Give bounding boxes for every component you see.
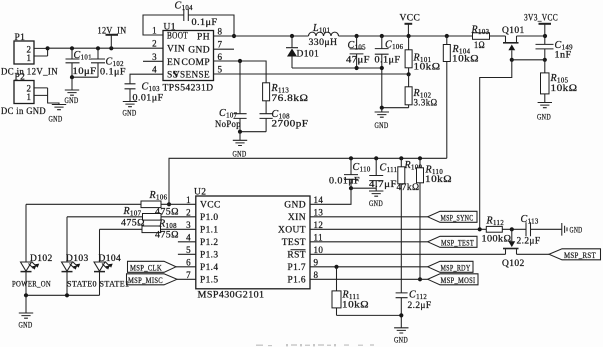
svg-text:10μF: 10μF <box>73 67 97 77</box>
svg-text:D102: D102 <box>30 254 53 264</box>
wire U1 pin3 EN stub <box>143 60 163 62</box>
svg-text:MSP_SYNC: MSP_SYNC <box>441 213 474 223</box>
LED D103 <box>62 217 98 295</box>
svg-text:Q102: Q102 <box>502 259 525 269</box>
svg-text:10kΩ: 10kΩ <box>425 175 452 185</box>
resistor R103 <box>471 25 506 52</box>
svg-text:P1.5: P1.5 <box>200 276 219 286</box>
wire U2 pin12 XOUT to R112 <box>310 228 486 230</box>
wire LED cathode bus <box>26 294 100 296</box>
wire Q102 to MSP_RST <box>517 253 550 255</box>
node C112 ground junction <box>399 313 403 317</box>
svg-text:1: 1 <box>186 195 191 205</box>
svg-text:GND: GND <box>375 121 389 130</box>
svg-text:MSP_MOSI: MSP_MOSI <box>441 275 476 285</box>
ground LED bus <box>25 295 27 313</box>
ground C107 C108 <box>239 132 241 141</box>
ground C111 <box>369 191 383 196</box>
wire C104 to PH node <box>188 15 234 36</box>
capacitor C101 <box>66 48 97 77</box>
node 3V3 tap <box>543 34 547 38</box>
transistor Q102 <box>502 229 525 269</box>
resistor R107 <box>67 206 196 229</box>
node D103 cathode junction <box>65 293 69 297</box>
connector P1 <box>1 33 58 78</box>
ground C101 C102 <box>71 77 73 90</box>
wire P2 to ground <box>34 88 59 105</box>
wire U2 pin10 RST <box>310 253 506 255</box>
ground R105 <box>538 103 552 108</box>
svg-text:D103: D103 <box>66 254 89 264</box>
svg-text:10kΩ: 10kΩ <box>452 55 479 65</box>
node C106 tap top <box>380 34 384 38</box>
svg-text:0.1μF: 0.1μF <box>192 18 218 28</box>
svg-text:VSENSE: VSENSE <box>173 71 210 81</box>
svg-text:10kΩ: 10kΩ <box>551 84 578 94</box>
resistor R104 <box>443 36 479 158</box>
svg-text:D101: D101 <box>297 50 320 60</box>
wire 3V3 mid rail <box>169 158 447 204</box>
svg-text:BOOT: BOOT <box>167 32 188 42</box>
node Q101 gate junction <box>510 58 514 62</box>
svg-text:VCC: VCC <box>400 14 421 24</box>
LED D104 <box>94 229 130 295</box>
svg-text:GND: GND <box>537 113 551 122</box>
resistor R101 <box>405 36 440 74</box>
resistor R102 <box>382 74 438 108</box>
svg-text:2: 2 <box>152 39 157 49</box>
svg-text:DC in GND: DC in GND <box>1 107 46 117</box>
svg-text:VIN: VIN <box>167 45 185 55</box>
svg-text:10kΩ: 10kΩ <box>414 63 441 73</box>
svg-text:3: 3 <box>186 220 191 230</box>
svg-text:GND: GND <box>233 150 247 159</box>
node 12V_IN tap <box>109 46 113 50</box>
flag MSP_RDY <box>428 261 473 272</box>
svg-text:10kΩ: 10kΩ <box>342 301 369 311</box>
wire U1 pin4 SS to C103 <box>130 74 163 84</box>
resistor R111 <box>332 267 369 316</box>
svg-text:2.2μF: 2.2μF <box>517 237 541 247</box>
node C110 tap <box>349 156 353 160</box>
svg-text:P1.7: P1.7 <box>288 263 307 273</box>
diode D101 <box>286 36 319 68</box>
wire U1 pin5 VSENSE to divider <box>214 73 409 75</box>
svg-text:3: 3 <box>152 52 157 62</box>
flag MSP_TEST <box>428 236 477 247</box>
svg-text:475Ω: 475Ω <box>155 231 179 241</box>
svg-text:GND: GND <box>570 226 583 235</box>
node C105 ground junction <box>355 66 359 70</box>
capacitor C111 <box>369 158 397 191</box>
node C105 tap top <box>355 34 359 38</box>
flag MSP_MISC <box>127 274 196 285</box>
svg-text:14: 14 <box>314 195 324 205</box>
svg-text:8: 8 <box>218 27 223 37</box>
svg-text:0.1μF: 0.1μF <box>100 68 126 78</box>
svg-text:3.3kΩ: 3.3kΩ <box>414 99 438 109</box>
svg-text:GND: GND <box>394 336 408 345</box>
svg-text:5: 5 <box>186 245 191 255</box>
node C106 anode-line junction <box>380 66 384 70</box>
svg-text:STATE0: STATE0 <box>67 279 97 289</box>
svg-text:1: 1 <box>152 26 157 36</box>
inductor L101 <box>309 23 339 48</box>
svg-text:GND: GND <box>369 199 383 208</box>
wire 12V input rail <box>48 47 163 49</box>
svg-text:D104: D104 <box>99 254 122 264</box>
capacitor C112 <box>396 290 432 328</box>
svg-text:EN: EN <box>167 58 180 68</box>
svg-text:U2: U2 <box>194 188 206 198</box>
svg-text:475Ω: 475Ω <box>121 219 145 229</box>
svg-text:Q101: Q101 <box>502 26 525 36</box>
svg-text:P1.2: P1.2 <box>200 238 219 248</box>
svg-text:TEST: TEST <box>282 238 306 248</box>
svg-text:RST: RST <box>287 251 306 261</box>
node C107 C108 ground junction <box>238 130 242 134</box>
svg-text:MSP_TEST: MSP_TEST <box>441 238 474 248</box>
svg-text:9: 9 <box>314 257 319 267</box>
ground R102 C106 <box>381 108 383 112</box>
svg-text:NoPop: NoPop <box>215 120 241 130</box>
flag MSP_MOSI <box>428 274 478 285</box>
node C111 tap <box>374 156 378 160</box>
svg-text:GND: GND <box>19 321 33 330</box>
svg-text:10: 10 <box>314 245 324 255</box>
resistor R105 <box>541 60 578 103</box>
svg-text:XOUT: XOUT <box>278 226 306 236</box>
node C102 tap <box>96 46 100 50</box>
wire U1 pin6 COMP <box>214 61 267 83</box>
transistor Q101 <box>502 26 525 60</box>
svg-text:P1.0: P1.0 <box>200 213 219 223</box>
wire U2 pin9 P1.7 <box>310 266 428 268</box>
wire R111 to C112 ground <box>337 314 402 316</box>
svg-text:DC in 12V_IN: DC in 12V_IN <box>1 68 58 78</box>
svg-text:1Ω: 1Ω <box>474 41 485 51</box>
node R109 tap <box>399 156 403 160</box>
svg-text:5: 5 <box>218 65 223 75</box>
capacitor C102 <box>72 48 126 77</box>
node R102 ground junction <box>380 106 384 110</box>
svg-text:4.7μF: 4.7μF <box>369 180 397 190</box>
svg-text:7: 7 <box>186 270 191 280</box>
resistor R109 <box>397 158 423 293</box>
wire U2 pin13 XIN <box>310 216 428 218</box>
wire U1 pin1 to C104 <box>143 15 184 35</box>
svg-text:2: 2 <box>186 207 191 217</box>
svg-text:0.1μF: 0.1μF <box>375 56 401 66</box>
wire C110 ground link <box>351 187 376 189</box>
svg-text:GND: GND <box>188 46 210 56</box>
svg-text:STATE1: STATE1 <box>100 279 130 289</box>
svg-text:330μH: 330μH <box>309 38 338 48</box>
svg-text:47μF: 47μF <box>346 56 370 66</box>
wire D101 anode to ground run <box>292 67 382 69</box>
node R104 tap <box>445 34 449 38</box>
wire U2 pin5 stub <box>178 253 196 255</box>
ground C103 <box>123 102 137 107</box>
node C101 tap <box>70 46 74 50</box>
ground C112 R111 <box>394 328 408 333</box>
svg-text:MSP_RDY: MSP_RDY <box>441 263 471 273</box>
capacitor C105 <box>346 36 370 68</box>
capacitor C104 <box>175 1 218 29</box>
node R110 to P1.6 junction <box>418 277 422 281</box>
svg-text:P2: P2 <box>15 73 26 83</box>
svg-text:GND: GND <box>49 115 63 124</box>
node U2 VCC junction <box>167 202 171 206</box>
resistor R106 <box>26 190 196 218</box>
svg-text:MSP430G2101: MSP430G2101 <box>198 291 265 301</box>
svg-text:XIN: XIN <box>288 213 306 223</box>
svg-text:4: 4 <box>186 232 191 242</box>
svg-text:7: 7 <box>218 40 223 50</box>
node C149 R105 junction <box>543 58 547 62</box>
svg-text:8: 8 <box>314 270 319 280</box>
resistor R110 <box>417 158 453 279</box>
svg-text:VCC: VCC <box>200 201 221 211</box>
svg-text:1: 1 <box>27 53 32 63</box>
svg-text:47kΩ: 47kΩ <box>397 183 420 193</box>
svg-text:PH: PH <box>197 33 210 43</box>
capacitor C108 <box>260 101 309 132</box>
capacitor C107 <box>215 61 266 132</box>
svg-text:1: 1 <box>27 92 32 102</box>
svg-text:100kΩ: 100kΩ <box>482 235 512 245</box>
resistor R108 <box>100 219 196 241</box>
capacitor C103 <box>125 82 164 104</box>
svg-text:1nF: 1nF <box>555 51 572 61</box>
svg-text:11: 11 <box>314 232 323 242</box>
svg-text:GND: GND <box>284 201 306 211</box>
node D101 tap <box>290 34 294 38</box>
svg-text:4: 4 <box>152 65 157 75</box>
wire U2 pin14 to ground <box>310 188 351 204</box>
node VSENSE divider junction <box>407 72 411 76</box>
node R112 C113 Q102 junction <box>510 227 514 231</box>
wire P1 pin stubs <box>34 48 48 56</box>
svg-text:P1: P1 <box>15 33 26 43</box>
svg-text:P1.1: P1.1 <box>200 226 219 236</box>
node VCC tap <box>407 34 411 38</box>
svg-text:GND: GND <box>65 96 79 105</box>
wire Q101 drain to 3V3 <box>517 35 546 37</box>
node C107 tap <box>238 59 242 63</box>
svg-text:MSP_RST: MSP_RST <box>564 250 596 260</box>
node R111 tap <box>334 265 338 269</box>
svg-text:2700pF: 2700pF <box>272 120 309 130</box>
svg-text:GND: GND <box>123 109 137 118</box>
resistor R112 <box>482 216 527 245</box>
wire U2 pin4 stub <box>178 241 196 243</box>
flag MSP_SYNC <box>428 211 477 222</box>
svg-text:6: 6 <box>218 52 223 62</box>
LED D102 <box>12 204 53 295</box>
wire PH rail <box>214 35 474 37</box>
svg-text:6: 6 <box>186 257 191 267</box>
node R110 tap <box>418 156 422 160</box>
svg-text:P1.6: P1.6 <box>288 276 307 286</box>
connector P2 <box>1 73 46 118</box>
svg-text:0.01μF: 0.01μF <box>329 177 360 187</box>
net label 12V_IN <box>98 27 127 49</box>
wire U2 pin11 TEST <box>310 241 428 243</box>
net label VCC <box>400 14 421 37</box>
node XOUT gate junction <box>478 227 482 231</box>
svg-text:MSP_MISC: MSP_MISC <box>128 275 163 285</box>
flag MSP_CLK <box>128 261 196 272</box>
svg-text:2.2μF: 2.2μF <box>408 301 432 311</box>
svg-text:12: 12 <box>314 220 324 230</box>
svg-text:P1.4: P1.4 <box>200 263 219 273</box>
microcontroller U2 MSP430G2101 body <box>194 188 310 301</box>
svg-text:P1.3: P1.3 <box>200 251 219 261</box>
resistor R113 <box>263 83 309 104</box>
svg-text:TPS54231D: TPS54231D <box>163 84 214 94</box>
op-amp U1 TPS54231D body <box>163 23 214 94</box>
capacitor C113 <box>517 214 541 247</box>
capacitor C106 <box>375 36 404 108</box>
caption fragment <box>256 344 374 346</box>
ground P2 <box>52 105 66 110</box>
net label 3V3_VCC <box>524 14 558 37</box>
ground C113 sideways <box>531 223 583 236</box>
svg-text:POWER_ON: POWER_ON <box>12 279 51 289</box>
flag MSP_RST <box>549 249 601 260</box>
wire U2 pin8 P1.6 <box>310 278 428 280</box>
svg-text:76.8kΩ: 76.8kΩ <box>272 94 309 104</box>
capacitor C149 <box>536 36 574 61</box>
capacitor C110 <box>329 158 371 188</box>
wire Q101 gate down to XOUT node <box>480 60 512 230</box>
svg-text:MSP_CLK: MSP_CLK <box>130 263 162 273</box>
node P1 junction <box>46 46 50 50</box>
svg-text:13: 13 <box>314 207 324 217</box>
node C104 return <box>232 34 236 38</box>
wire U1 pin7 GND stub <box>214 48 235 50</box>
svg-text:3V3_VCC: 3V3_VCC <box>524 14 558 24</box>
node D102 cathode junction <box>24 293 28 297</box>
node C110 ground junction <box>349 186 353 190</box>
node C101 C102 ground junction <box>70 75 74 79</box>
wire gate to C149 bottom <box>512 59 545 61</box>
svg-text:COMP: COMP <box>181 58 210 68</box>
